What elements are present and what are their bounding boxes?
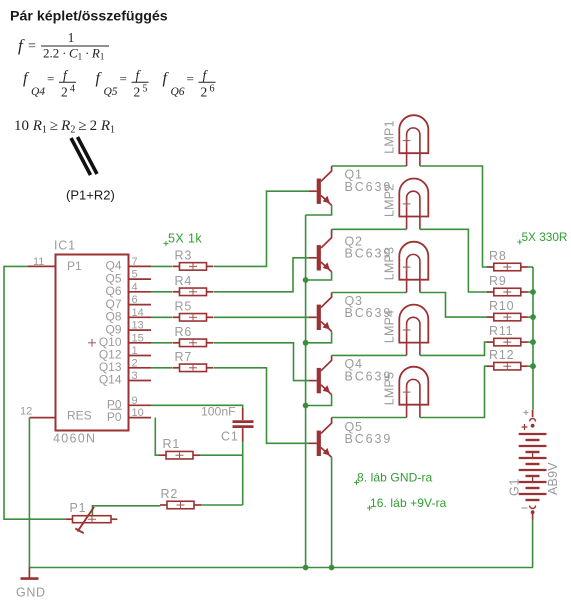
transistor Q3 BC639	[309, 293, 332, 332]
resistor R7	[173, 350, 214, 372]
svg-text:R10: R10	[489, 299, 514, 313]
svg-text:R3: R3	[175, 248, 193, 262]
wire pin to R6	[151, 342, 172, 344]
svg-text:R7: R7	[175, 350, 193, 364]
junction supply bus	[530, 363, 536, 369]
wire R5 to Q3 base	[214, 316, 309, 318]
wire C1 to R1 R2 junction	[242, 442, 244, 506]
svg-text:Q6: Q6	[171, 86, 185, 98]
formula 10R1 >= R2 >= 2R1	[14, 118, 115, 136]
svg-text:R4: R4	[175, 274, 193, 288]
svg-text:Q5: Q5	[104, 86, 118, 98]
wire R12 to supply bus	[527, 365, 533, 367]
svg-text:f: f	[136, 68, 142, 83]
svg-text:2: 2	[132, 357, 138, 369]
potentiometer P1	[66, 507, 117, 533]
wire pin10 down to R1	[155, 418, 159, 456]
formula fQ4 fQ5 fQ6	[23, 68, 216, 100]
svg-text:2: 2	[201, 85, 208, 100]
junction Q3 emitter	[303, 340, 309, 346]
wire pin12 to GND rail	[28, 418, 30, 568]
svg-text:2.2 · C1 · R1: 2.2 · C1 · R1	[43, 46, 104, 62]
wire pin to R5	[151, 316, 172, 318]
resistor R1	[159, 437, 200, 459]
svg-text:2: 2	[134, 85, 141, 100]
resistor R10	[487, 299, 528, 321]
svg-text:10: 10	[132, 407, 144, 419]
lamp LMP5	[399, 367, 428, 418]
wire LMP3 to R10	[420, 293, 488, 318]
svg-text:8. láb GND-ra: 8. láb GND-ra	[357, 471, 433, 485]
svg-text:1: 1	[68, 30, 75, 45]
svg-text:P1: P1	[70, 501, 87, 515]
svg-text:R9: R9	[489, 274, 507, 288]
IC1 right pin stubs	[129, 256, 152, 419]
wire LMP1 to R8	[420, 166, 488, 267]
wire collector to LMP4	[332, 354, 407, 356]
wire R7 to Q5 base	[214, 368, 309, 444]
battery G1 AB9V	[519, 410, 547, 520]
svg-text:R8: R8	[489, 249, 507, 263]
wire R8 to supply bus	[527, 266, 533, 268]
wire R9 to supply bus	[527, 291, 533, 293]
junction Q2 emitter	[303, 277, 309, 283]
transistor Q2 BC639	[309, 229, 332, 271]
double slash mark	[71, 138, 91, 175]
formula f = 1/(2.2*C1*R1)	[18, 30, 109, 62]
svg-text:5X 1k: 5X 1k	[168, 232, 202, 246]
resistor R9	[487, 274, 528, 296]
svg-text:10 R1 ≥ R2 ≥ 2 R1: 10 R1 ≥ R2 ≥ 2 R1	[14, 118, 115, 136]
svg-text:f: f	[96, 70, 103, 87]
svg-text:f: f	[63, 68, 69, 83]
wire Q3 emitter to bus	[306, 331, 332, 343]
svg-text:R12: R12	[489, 348, 514, 362]
svg-text:5: 5	[132, 269, 138, 281]
svg-text:GND: GND	[16, 586, 46, 600]
wire battery minus to bottom rail	[532, 520, 534, 568]
wire Q2 emitter to bus	[306, 272, 332, 280]
svg-text:AB9V: AB9V	[546, 462, 560, 495]
junction supply bus	[530, 314, 536, 320]
svg-text:=: =	[47, 71, 54, 86]
bottom GND rail wire	[29, 567, 533, 569]
wire pin11 to P1 pot	[4, 266, 66, 519]
resistor R6	[173, 325, 214, 347]
IC1 left pin stubs	[20, 256, 56, 418]
svg-text:=: =	[120, 71, 127, 86]
svg-text:RES: RES	[67, 409, 92, 423]
wire Q4 emitter to bus	[306, 395, 332, 406]
resistor R8	[487, 249, 528, 271]
svg-text:f: f	[203, 68, 209, 83]
svg-text:4: 4	[70, 84, 75, 95]
junction bus bottom	[303, 565, 309, 571]
wire pin to R7	[151, 367, 172, 369]
wire collector to LMP5	[332, 417, 407, 419]
transistor Q4 BC639	[309, 355, 332, 394]
svg-text:LMP4: LMP4	[383, 310, 397, 343]
svg-text:5: 5	[143, 84, 148, 95]
wire R2 to vertical	[201, 504, 243, 506]
lamp LMP3	[399, 242, 428, 293]
wire R4 to Q2 base	[214, 258, 309, 292]
svg-text:Q14: Q14	[99, 373, 122, 387]
wire R11 to supply bus	[527, 341, 533, 343]
svg-text:4: 4	[132, 281, 138, 293]
transistor Q1 BC639	[309, 166, 332, 205]
svg-text:BC639: BC639	[345, 432, 393, 446]
svg-text:16. láb +9V-ra: 16. láb +9V-ra	[370, 496, 447, 510]
wire R6 to Q4 base	[214, 343, 309, 381]
capacitor C1 100nF	[233, 408, 254, 442]
IC origin cross	[88, 342, 96, 344]
wire R10 to supply bus	[527, 316, 533, 318]
lamp LMP4	[399, 305, 428, 356]
svg-text:2: 2	[61, 85, 68, 100]
svg-text:12: 12	[20, 406, 32, 418]
resistor R3	[173, 248, 214, 270]
svg-text:G1: G1	[508, 478, 522, 496]
svg-text:4060N: 4060N	[53, 432, 96, 446]
svg-text:R5: R5	[175, 299, 193, 313]
wire collector to LMP3	[332, 292, 407, 294]
IC1 pin names	[67, 259, 122, 424]
junction supply bus	[530, 339, 536, 345]
resistor R4	[173, 274, 214, 296]
resistor R2	[160, 487, 201, 509]
wire LMP5 to R12	[420, 366, 488, 417]
wire pin to R3	[151, 265, 172, 267]
svg-text:7: 7	[132, 256, 138, 268]
resistor R12	[487, 348, 528, 370]
svg-text:C1: C1	[221, 430, 239, 444]
wire LMP2 to R9	[420, 229, 488, 292]
IC U1 4060N box	[56, 255, 129, 431]
transistor Q5 BC639	[309, 418, 332, 458]
wire Q5 emitter down	[331, 457, 333, 567]
svg-text:11: 11	[33, 256, 44, 268]
svg-text:Q4: Q4	[31, 86, 45, 98]
svg-text:LMP1: LMP1	[383, 120, 397, 153]
svg-text:P1: P1	[67, 259, 82, 273]
wire Q1 emitter to bus	[306, 205, 332, 215]
junction Q5 emitter bottom	[329, 565, 335, 571]
wire R2 to P1 wiper	[92, 506, 160, 516]
svg-text:LMP3: LMP3	[383, 247, 397, 280]
wire collector to LMP2	[332, 228, 407, 230]
wire collector to LMP1	[332, 165, 407, 167]
wire LMP4 to R11	[420, 342, 488, 355]
svg-text:3: 3	[132, 370, 138, 382]
svg-text:R1: R1	[163, 437, 181, 451]
svg-text:Pár képlet/összefüggés: Pár képlet/összefüggés	[10, 9, 168, 25]
svg-text:5X 330R: 5X 330R	[522, 230, 568, 244]
svg-text:14: 14	[132, 307, 144, 319]
svg-text:=: =	[187, 71, 194, 86]
junction Q4 emitter	[303, 403, 309, 409]
svg-text:P0: P0	[107, 410, 122, 424]
svg-text:=: =	[28, 39, 36, 54]
supply bus vertical	[532, 267, 534, 410]
svg-text:6: 6	[210, 84, 215, 95]
svg-text:LMP2: LMP2	[383, 184, 397, 217]
wire R1 to vertical	[200, 454, 243, 456]
svg-text:R6: R6	[175, 325, 193, 339]
svg-text:15: 15	[132, 332, 144, 344]
svg-text:f: f	[23, 70, 30, 87]
lamp LMP2	[399, 179, 428, 230]
svg-text:6: 6	[132, 294, 138, 306]
svg-text:R2: R2	[161, 487, 179, 501]
resistor R5	[173, 299, 214, 321]
svg-text:13: 13	[132, 320, 144, 332]
wire pin9 to C1	[151, 405, 243, 409]
svg-text:f: f	[163, 70, 170, 87]
lamp LMP1	[399, 115, 428, 166]
P0 overline	[110, 408, 122, 410]
svg-text:1: 1	[132, 345, 138, 357]
junction supply bus	[530, 289, 536, 295]
svg-text:IC1: IC1	[54, 239, 76, 253]
resistor R11	[487, 324, 528, 346]
svg-text:R11: R11	[489, 324, 513, 338]
emitter bus vertical	[305, 215, 307, 568]
wire R3 to Q1 base	[214, 191, 309, 266]
wire pin to R4	[151, 291, 172, 293]
svg-text:9: 9	[132, 395, 138, 407]
svg-text:(P1+R2): (P1+R2)	[66, 188, 115, 203]
svg-text:100nF: 100nF	[201, 405, 236, 419]
ground symbol	[21, 568, 39, 579]
svg-text:f: f	[18, 36, 25, 55]
svg-text:LMP5: LMP5	[383, 372, 397, 405]
